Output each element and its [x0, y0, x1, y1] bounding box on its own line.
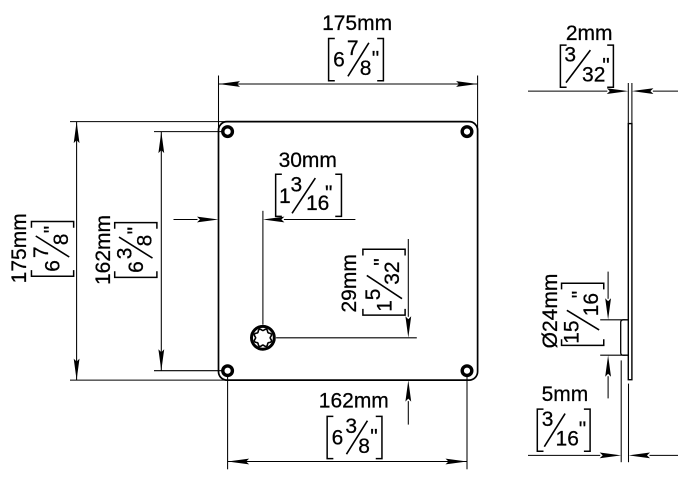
svg-text:3: 3 [291, 174, 303, 197]
dim 2mm: right arrow (points left) [632, 88, 654, 94]
svg-text:8: 8 [360, 57, 372, 80]
dim 175mm top: inch fraction [6 7/8"] [329, 37, 384, 81]
svg-text:": " [602, 54, 609, 77]
dim 5mm: left arrow (points right) [600, 453, 622, 459]
dim 29mm: hole center extension line [276, 337, 417, 339]
corner hole top-right [462, 127, 472, 137]
dim 162mm bottom: dimension line [228, 461, 467, 463]
svg-text:": " [371, 258, 394, 265]
dim 175mm left: bottom arrow [74, 359, 80, 381]
svg-text:5mm: 5mm [542, 383, 589, 406]
dim 175mm left: extension lines [70, 121, 228, 123]
dim 29mm: lower arrow (points up) [405, 380, 411, 402]
dim 162mm left: dimension line [160, 132, 162, 371]
dim dia24mm: extension lines [600, 319, 625, 321]
dim dia24mm: inch fraction [15/16"] (rotated) [561, 283, 604, 345]
dim 30mm: left tail line [174, 219, 198, 221]
dim 175mm left: top arrow [74, 122, 80, 144]
dim 30mm: left arrow (points right) [197, 217, 219, 223]
svg-text:7: 7 [30, 246, 53, 258]
svg-text:8: 8 [50, 234, 73, 246]
dim dia24mm: upper arrow (points down) [605, 298, 611, 320]
dim 30mm: inch fraction [1 3/16"] [276, 174, 342, 217]
dim 175mm top: left arrow [219, 81, 241, 87]
dim 2mm: left arrow (points right) [607, 88, 629, 94]
dim 2mm: inch fraction [3/32"] [560, 44, 613, 88]
svg-text:162mm: 162mm [92, 215, 115, 285]
dim 162mm bottom: extension lines [227, 377, 229, 469]
dim 5mm: right arrow (points left) [629, 453, 651, 459]
dim 162mm left: top arrow [158, 132, 164, 154]
dim dia24mm: upper tail line [607, 272, 609, 299]
dim 29mm: upper arrow (points down) [405, 316, 411, 338]
center hole outer circle [252, 326, 275, 349]
svg-text:3: 3 [564, 44, 576, 67]
dim 175mm left: dimension line [76, 122, 78, 381]
svg-text:5: 5 [362, 289, 385, 301]
svg-text:6: 6 [42, 260, 65, 272]
svg-text:": " [124, 227, 147, 234]
svg-text:29mm: 29mm [338, 254, 361, 312]
center hole torx lobes [254, 329, 271, 346]
corner hole top-left [223, 127, 233, 137]
svg-text:": " [569, 291, 592, 298]
dim 29mm: upper tail line [407, 239, 409, 317]
dim 30mm: right arrow (points left) [263, 217, 285, 223]
dim dia24mm: lower tail line [607, 376, 609, 398]
corner hole bottom-right [462, 366, 472, 376]
dim 162mm bottom: right arrow [446, 459, 468, 465]
dim 175mm top: right arrow [456, 81, 478, 87]
svg-text:3: 3 [542, 408, 554, 431]
svg-text:6: 6 [333, 49, 345, 72]
dim 5mm: right tail line [650, 454, 678, 456]
svg-text:2mm: 2mm [566, 22, 613, 45]
dim 30mm: right tail line [284, 219, 356, 221]
plate front view outline [219, 122, 478, 381]
svg-text:": " [41, 226, 64, 233]
svg-text:1: 1 [279, 185, 291, 208]
svg-text:6: 6 [125, 261, 148, 273]
svg-text:": " [372, 48, 379, 71]
svg-text:15: 15 [561, 320, 584, 343]
dim 162mm left: inch fraction [6 3/8"] (rotated) [113, 223, 157, 278]
dim dia24mm: lower arrow (points up) [605, 355, 611, 377]
svg-text:175mm: 175mm [322, 12, 392, 35]
dim 2mm: left tail line [528, 90, 607, 92]
dim 162mm bottom: inch fraction [6 3/8"] [327, 415, 382, 459]
dim 162mm left: bottom arrow [158, 349, 164, 371]
svg-text:8: 8 [133, 235, 156, 247]
dim 5mm: left tail line [528, 454, 600, 456]
dim 29mm: lower tail line [407, 401, 409, 425]
svg-text:": " [579, 418, 586, 441]
dim 162mm left: extension lines [154, 131, 222, 133]
svg-text:3: 3 [113, 248, 136, 260]
dim 175mm top: dimension line [219, 83, 478, 85]
svg-text:8: 8 [358, 435, 370, 458]
svg-text:1: 1 [374, 300, 397, 312]
dim 162mm bottom: left arrow [228, 459, 250, 465]
svg-text:": " [370, 426, 377, 449]
dim 29mm: inch fraction [1 5/32"] (rotated) [362, 249, 405, 315]
svg-text:175mm: 175mm [8, 213, 31, 283]
svg-text:162mm: 162mm [319, 390, 389, 413]
svg-text:": " [325, 182, 332, 205]
svg-text:16: 16 [556, 428, 579, 451]
svg-text:7: 7 [347, 37, 359, 60]
dim 5mm: inch fraction [3/16"] [537, 408, 590, 451]
corner hole bottom-left [223, 366, 233, 376]
svg-text:30mm: 30mm [279, 149, 337, 172]
dim 30mm: hole center extension line [262, 211, 264, 325]
dim 2mm: extension lines [627, 83, 629, 124]
dim 175mm left: inch fraction [6 7/8"] (rotated) [30, 222, 74, 277]
dim 2mm: right tail line [653, 90, 678, 92]
svg-text:Ø24mm: Ø24mm [539, 274, 562, 349]
dim 5mm: extension lines [620, 360, 622, 462]
side view plate body [628, 124, 632, 380]
side view boss (24mm circular boss edge-on) [621, 320, 629, 355]
svg-text:6: 6 [332, 427, 344, 450]
dim 175mm top: extension lines [218, 76, 220, 132]
svg-text:3: 3 [345, 415, 357, 438]
